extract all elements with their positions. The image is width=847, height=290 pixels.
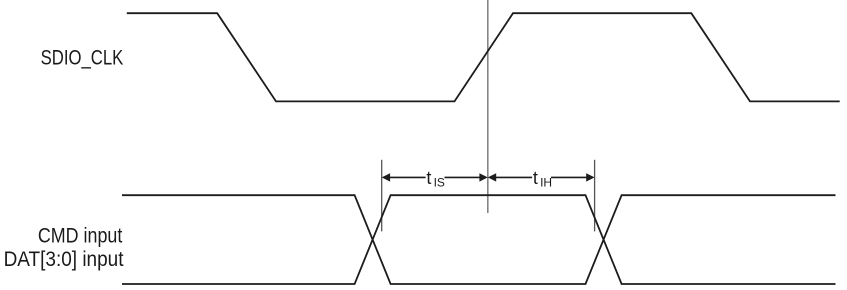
svg-text:IS: IS <box>434 176 445 190</box>
t_IS left arrowhead <box>382 173 390 181</box>
svg-text:t: t <box>533 168 538 188</box>
t_IS right arrowhead <box>479 173 487 181</box>
SDIO_CLK waveform <box>127 13 840 101</box>
t_IH left arrowhead <box>488 173 496 181</box>
t_IH right arrowhead <box>586 173 594 181</box>
svg-text:t: t <box>426 168 431 188</box>
hold time dimension arrow t_IH <box>494 176 588 178</box>
svg-text:IH: IH <box>540 176 552 190</box>
setup-time tick (left vertical marker) <box>381 160 383 232</box>
svg-text:CMD input: CMD input <box>38 224 123 247</box>
clock sampling reference line (vertical) <box>487 0 489 213</box>
CMD/DAT bus waveform lower trace <box>122 195 836 284</box>
hold-time tick (right vertical marker) <box>594 160 596 232</box>
setup time dimension arrow t_IS <box>388 176 482 178</box>
CMD/DAT bus waveform upper trace <box>122 195 836 284</box>
svg-text:DAT[3:0] input: DAT[3:0] input <box>4 248 124 271</box>
svg-text:SDIO_CLK: SDIO_CLK <box>41 46 124 69</box>
